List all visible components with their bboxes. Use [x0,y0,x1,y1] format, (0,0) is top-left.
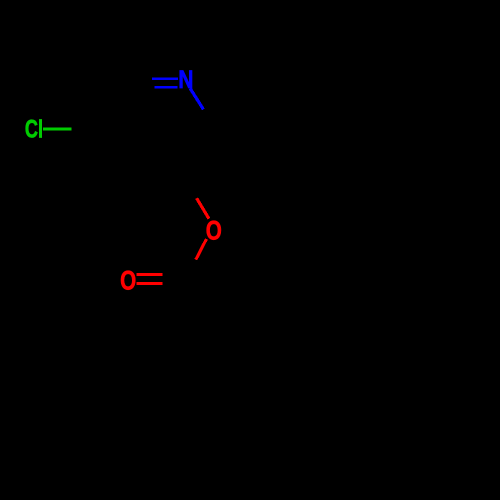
svg-text:Cl: Cl [25,115,43,144]
svg-text:O: O [120,266,136,296]
svg-text:N: N [178,65,193,93]
svg-text:O: O [206,216,222,246]
